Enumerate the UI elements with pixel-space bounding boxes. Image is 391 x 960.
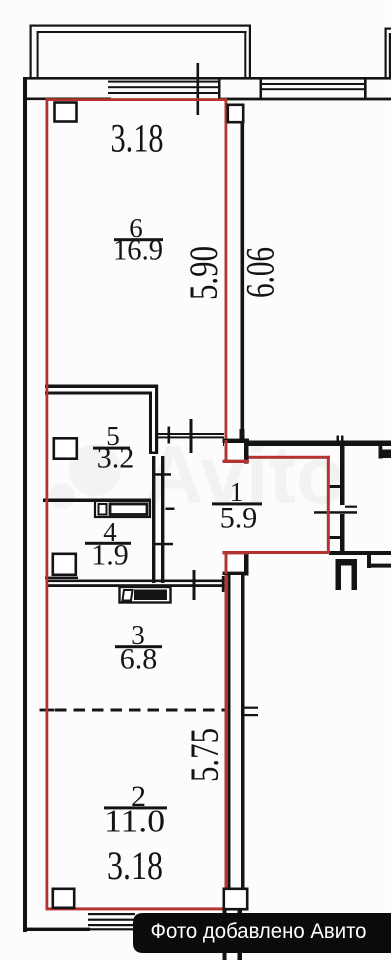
hallway top boundary lines (158, 433, 224, 435)
svg-text:11.0: 11.0 (104, 803, 165, 839)
pier 2 edge (364, 79, 367, 100)
hallway top band top line (223, 441, 391, 447)
room 3 top wall upper line (47, 580, 226, 583)
tick near red line room3 wall (222, 576, 225, 592)
hallway right wall lower segment (340, 514, 345, 555)
dashed divider ticks (40, 709, 55, 712)
bottom window lines (88, 913, 135, 915)
svg-text:1.9: 1.9 (91, 539, 129, 572)
svg-text:5.90: 5.90 (181, 246, 226, 300)
window divider tick (197, 63, 200, 115)
top band bottom edge left part (23, 98, 111, 101)
hallway top band right pier (379, 444, 383, 459)
red left line (46, 98, 49, 910)
red bottom line (46, 907, 228, 910)
svg-text:3.2: 3.2 (97, 442, 135, 475)
photo added by avito bar (133, 913, 391, 953)
tick on wall y474 (154, 473, 171, 476)
hallway bottom column (223, 551, 250, 576)
red hallway bottom edge (246, 551, 330, 554)
room5 left column (54, 438, 77, 458)
top band bottom edge right part (218, 98, 391, 101)
door tick room3 top (193, 570, 196, 600)
svg-text:3.18: 3.18 (111, 116, 164, 161)
hallway boundary small tick (168, 427, 171, 444)
hallway right wall jambs (329, 485, 344, 488)
door ticks right of hallway (345, 506, 357, 508)
room2 fraction bar (104, 806, 167, 809)
svg-text:6.8: 6.8 (120, 643, 158, 676)
wardrobe symbol room4 (95, 501, 150, 517)
red right line upper (225, 98, 228, 440)
room6 left column (55, 103, 77, 122)
red top line (46, 98, 226, 101)
watermark avito ghost circles (49, 444, 121, 509)
window 2 lines (262, 83, 366, 85)
room4 left column (53, 554, 76, 575)
svg-text:6.06: 6.06 (238, 247, 283, 298)
room3 fraction bar (115, 645, 162, 648)
right balcony sliver (385, 28, 391, 30)
hallway top column (223, 439, 250, 464)
wardrobe symbol room3 (120, 587, 171, 603)
rooms 3/2 right wall inner line (228, 575, 231, 889)
bottom left column (53, 889, 74, 908)
bottom outer edge (23, 928, 90, 931)
left outer wall (23, 77, 27, 932)
svg-text:3.18: 3.18 (107, 843, 163, 888)
small nubs above hallway band (337, 436, 340, 442)
room4 fraction bar (85, 542, 131, 545)
room5/hall wall upper verticals (149, 392, 152, 454)
svg-text:5.75: 5.75 (182, 728, 227, 782)
duct symbol (336, 559, 342, 590)
pier between windows (218, 77, 221, 100)
small tick right of wardrobe1 (166, 508, 175, 511)
room 5 top wall (45, 385, 158, 389)
room4/hall wall verticals (152, 456, 155, 583)
svg-text:Фото добавлено Авито: Фото добавлено Авито (151, 920, 367, 943)
room4 column lower line (45, 577, 78, 579)
top band outer edge (23, 77, 391, 80)
hallway right wall upper segment (340, 446, 345, 505)
room5 fraction bar (93, 447, 130, 450)
bottom verticals below right column (223, 908, 227, 960)
bottom right column (224, 889, 247, 909)
room 3 top wall lower line (47, 584, 226, 587)
svg-text:16.9: 16.9 (113, 234, 163, 267)
room6 right column (228, 105, 243, 122)
rooms 3/2 right wall outer line (241, 575, 245, 889)
room1 fraction bar (212, 502, 262, 505)
hallway bottom band (329, 551, 391, 555)
hallway boundary big tick (190, 419, 193, 453)
balcony outer rect (30, 25, 32, 79)
dashed divider line room2/3 (55, 709, 226, 712)
tick on wall y542 (155, 543, 173, 546)
red hallway right edge (327, 456, 330, 554)
red right line lower (225, 573, 228, 910)
red hallway top edge (246, 456, 330, 459)
room6 fraction bar (114, 238, 163, 241)
window 1 lines (108, 81, 219, 83)
room 5/4 divider wall (43, 499, 151, 503)
balcony inner lines (37, 31, 39, 78)
svg-text:5.9: 5.9 (220, 502, 258, 535)
room 6 right wall (241, 122, 245, 432)
